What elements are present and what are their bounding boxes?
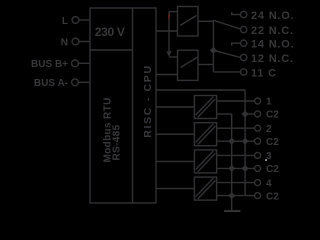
svg-text:N: N — [61, 38, 68, 49]
svg-text:RISC - CPU: RISC - CPU — [142, 64, 154, 138]
svg-text:3: 3 — [266, 151, 272, 162]
svg-text:14 N.O.: 14 N.O. — [251, 39, 295, 51]
svg-text:2: 2 — [266, 124, 272, 135]
svg-text:C2: C2 — [266, 110, 279, 121]
svg-text:24 N.O.: 24 N.O. — [251, 10, 295, 22]
svg-text:4: 4 — [266, 178, 272, 189]
svg-text:BUS B+: BUS B+ — [31, 59, 68, 70]
svg-text:1: 1 — [266, 97, 272, 108]
svg-text:RS-485: RS-485 — [112, 124, 123, 160]
svg-text:BUS A-: BUS A- — [34, 78, 68, 89]
svg-text:230 V: 230 V — [95, 25, 125, 39]
svg-text:C2: C2 — [266, 191, 279, 202]
svg-text:22 N.C.: 22 N.C. — [251, 25, 294, 37]
svg-text:C2: C2 — [266, 164, 279, 175]
svg-text:12 N.C.: 12 N.C. — [251, 53, 294, 65]
svg-text:L: L — [62, 16, 68, 27]
svg-text:C2: C2 — [266, 137, 279, 148]
svg-text:11 C: 11 C — [251, 67, 277, 79]
